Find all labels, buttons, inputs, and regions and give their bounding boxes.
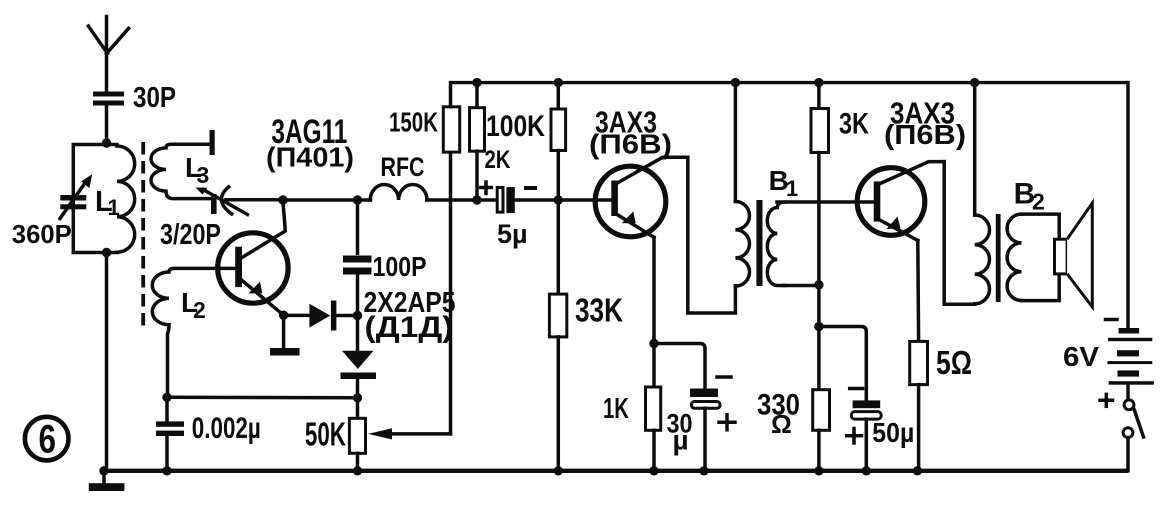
transistor Q2 3AX3 bbox=[595, 157, 688, 237]
svg-text:RFC: RFC bbox=[381, 152, 425, 182]
node 2K bottom bbox=[472, 195, 481, 204]
svg-text:2: 2 bbox=[1032, 189, 1045, 215]
node L2 bottom bbox=[162, 393, 171, 402]
transformer B2 bbox=[975, 83, 1059, 304]
resistor 150K bbox=[443, 83, 459, 153]
svg-text:6: 6 bbox=[39, 418, 57, 462]
trimmer capacitor 3/20P bbox=[196, 187, 284, 215]
inductor L3 bbox=[151, 144, 212, 198]
wire Q2 emitter down bbox=[652, 237, 656, 343]
wire L2 bottom to 50K bbox=[167, 396, 358, 400]
node Q1 emitter bbox=[279, 311, 288, 320]
antenna bbox=[88, 17, 128, 93]
rail nodes bbox=[99, 466, 922, 475]
node tank bottom bbox=[102, 248, 111, 257]
svg-text:5Ω: 5Ω bbox=[936, 344, 972, 381]
svg-text:Ω: Ω bbox=[771, 409, 792, 439]
wire 50K wiper to 150K bbox=[449, 152, 453, 434]
ferrite core dashed line bbox=[141, 142, 145, 331]
svg-text:(Д1Д): (Д1Д) bbox=[365, 311, 454, 344]
svg-text:30P: 30P bbox=[133, 82, 176, 114]
top supply rail bbox=[451, 81, 1129, 84]
battery 6V bbox=[1100, 83, 1154, 407]
svg-text:150K: 150K bbox=[389, 107, 438, 138]
diode D1 bbox=[284, 301, 358, 331]
capacitor 0.002µ bbox=[156, 397, 184, 471]
svg-text:1: 1 bbox=[108, 195, 120, 220]
capacitor 30µ bbox=[654, 344, 735, 471]
svg-text:6V: 6V bbox=[1063, 341, 1099, 372]
svg-text:5µ: 5µ bbox=[497, 219, 528, 249]
svg-text:33K: 33K bbox=[575, 292, 623, 329]
node B1 secondary bottom bbox=[814, 280, 823, 289]
potentiometer 50K bbox=[349, 398, 450, 471]
resistor 100K bbox=[551, 83, 566, 200]
node 2K top bbox=[472, 78, 481, 87]
svg-text:2: 2 bbox=[193, 297, 206, 323]
switch bbox=[1123, 400, 1143, 471]
diode D2 bbox=[341, 316, 377, 398]
wire RF line bbox=[283, 198, 371, 202]
svg-text:(П6В): (П6В) bbox=[589, 129, 672, 160]
transistor Q1 3AG11 bbox=[218, 202, 288, 315]
speaker bbox=[1055, 203, 1093, 307]
svg-text:µ: µ bbox=[673, 425, 689, 456]
transistor Q3 3AX3 bbox=[857, 162, 944, 241]
resistor 330Ω bbox=[813, 327, 830, 471]
node Q1 collector bbox=[278, 195, 287, 204]
svg-text:3K: 3K bbox=[839, 108, 869, 141]
svg-text:100P: 100P bbox=[373, 251, 427, 282]
svg-text:3/20P: 3/20P bbox=[160, 219, 221, 251]
ground main bbox=[89, 471, 125, 491]
wire left drop to ground rail bbox=[105, 253, 109, 471]
node B1 primary top bbox=[731, 78, 740, 87]
node 100K bottom bbox=[554, 195, 563, 204]
svg-text:360P: 360P bbox=[12, 219, 72, 249]
svg-text:100K: 100K bbox=[486, 110, 545, 143]
svg-text:0.002µ: 0.002µ bbox=[192, 412, 261, 445]
svg-text:3: 3 bbox=[197, 162, 210, 188]
wire B1 secondary top / Q3 base bbox=[777, 200, 874, 204]
resistor 5Ω bbox=[910, 341, 928, 470]
node D1/D2 junction bbox=[353, 311, 362, 320]
node Q2 emitter bbox=[649, 339, 658, 348]
resistor 2K bbox=[470, 83, 485, 200]
figure number 6 bbox=[25, 417, 69, 462]
node antenna/tank top bbox=[102, 138, 111, 147]
variable capacitor 360P bbox=[60, 174, 92, 218]
wire tank loop bbox=[73, 145, 117, 253]
svg-text:(П401): (П401) bbox=[266, 142, 354, 173]
bottom ground rail bbox=[100, 469, 1128, 473]
node 50µ tap bbox=[814, 322, 823, 331]
node B2 primary top bbox=[970, 78, 979, 87]
svg-text:50µ: 50µ bbox=[872, 417, 914, 448]
capacitor 50µ bbox=[819, 327, 881, 471]
resistor 1K bbox=[646, 344, 661, 471]
svg-text:1: 1 bbox=[786, 176, 798, 201]
wire RF line 2 bbox=[427, 198, 497, 202]
capacitor 30P bbox=[93, 92, 124, 146]
node 100P top bbox=[353, 195, 362, 204]
antenna coupling terminal bar bbox=[210, 130, 215, 155]
wire Q3 emitter down bbox=[916, 241, 920, 342]
wire Q3 collector to B2 primary bbox=[944, 162, 975, 305]
svg-text:2K: 2K bbox=[485, 146, 511, 174]
svg-text:1K: 1K bbox=[603, 393, 629, 425]
svg-text:50K: 50K bbox=[305, 416, 346, 453]
inductor RFC bbox=[370, 184, 427, 200]
node 3K top bbox=[814, 78, 823, 87]
capacitor 100P bbox=[343, 200, 372, 316]
resistor 33K bbox=[549, 200, 566, 471]
ground Q1 emitter bbox=[270, 315, 300, 355]
capacitor 5µ bbox=[481, 182, 612, 213]
wire Q2 collector to B1 primary bbox=[688, 157, 736, 313]
node 100K top bbox=[554, 78, 563, 87]
resistor 3K bbox=[811, 83, 829, 327]
svg-text:(П6В): (П6В) bbox=[884, 119, 966, 150]
node D2 bottom / 50K top bbox=[353, 393, 362, 402]
inductor L1 bbox=[117, 146, 135, 252]
inductor L2 / base wire bbox=[152, 268, 238, 397]
transformer B1 bbox=[735, 83, 819, 287]
